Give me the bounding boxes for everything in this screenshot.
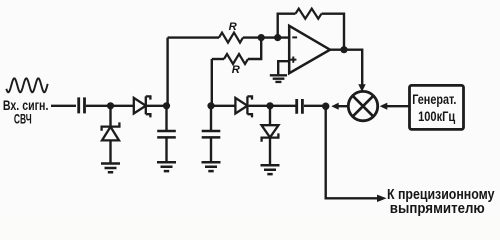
svg-text:R: R (229, 21, 237, 33)
svg-text:100кГц: 100кГц (418, 109, 456, 124)
svg-text:СВЧ: СВЧ (14, 112, 32, 127)
svg-text:выпрямителю: выпрямителю (390, 201, 485, 217)
svg-text:Генерат.: Генерат. (412, 92, 456, 107)
svg-text:Вх. сигн.: Вх. сигн. (3, 97, 49, 113)
svg-text:R: R (232, 64, 240, 76)
